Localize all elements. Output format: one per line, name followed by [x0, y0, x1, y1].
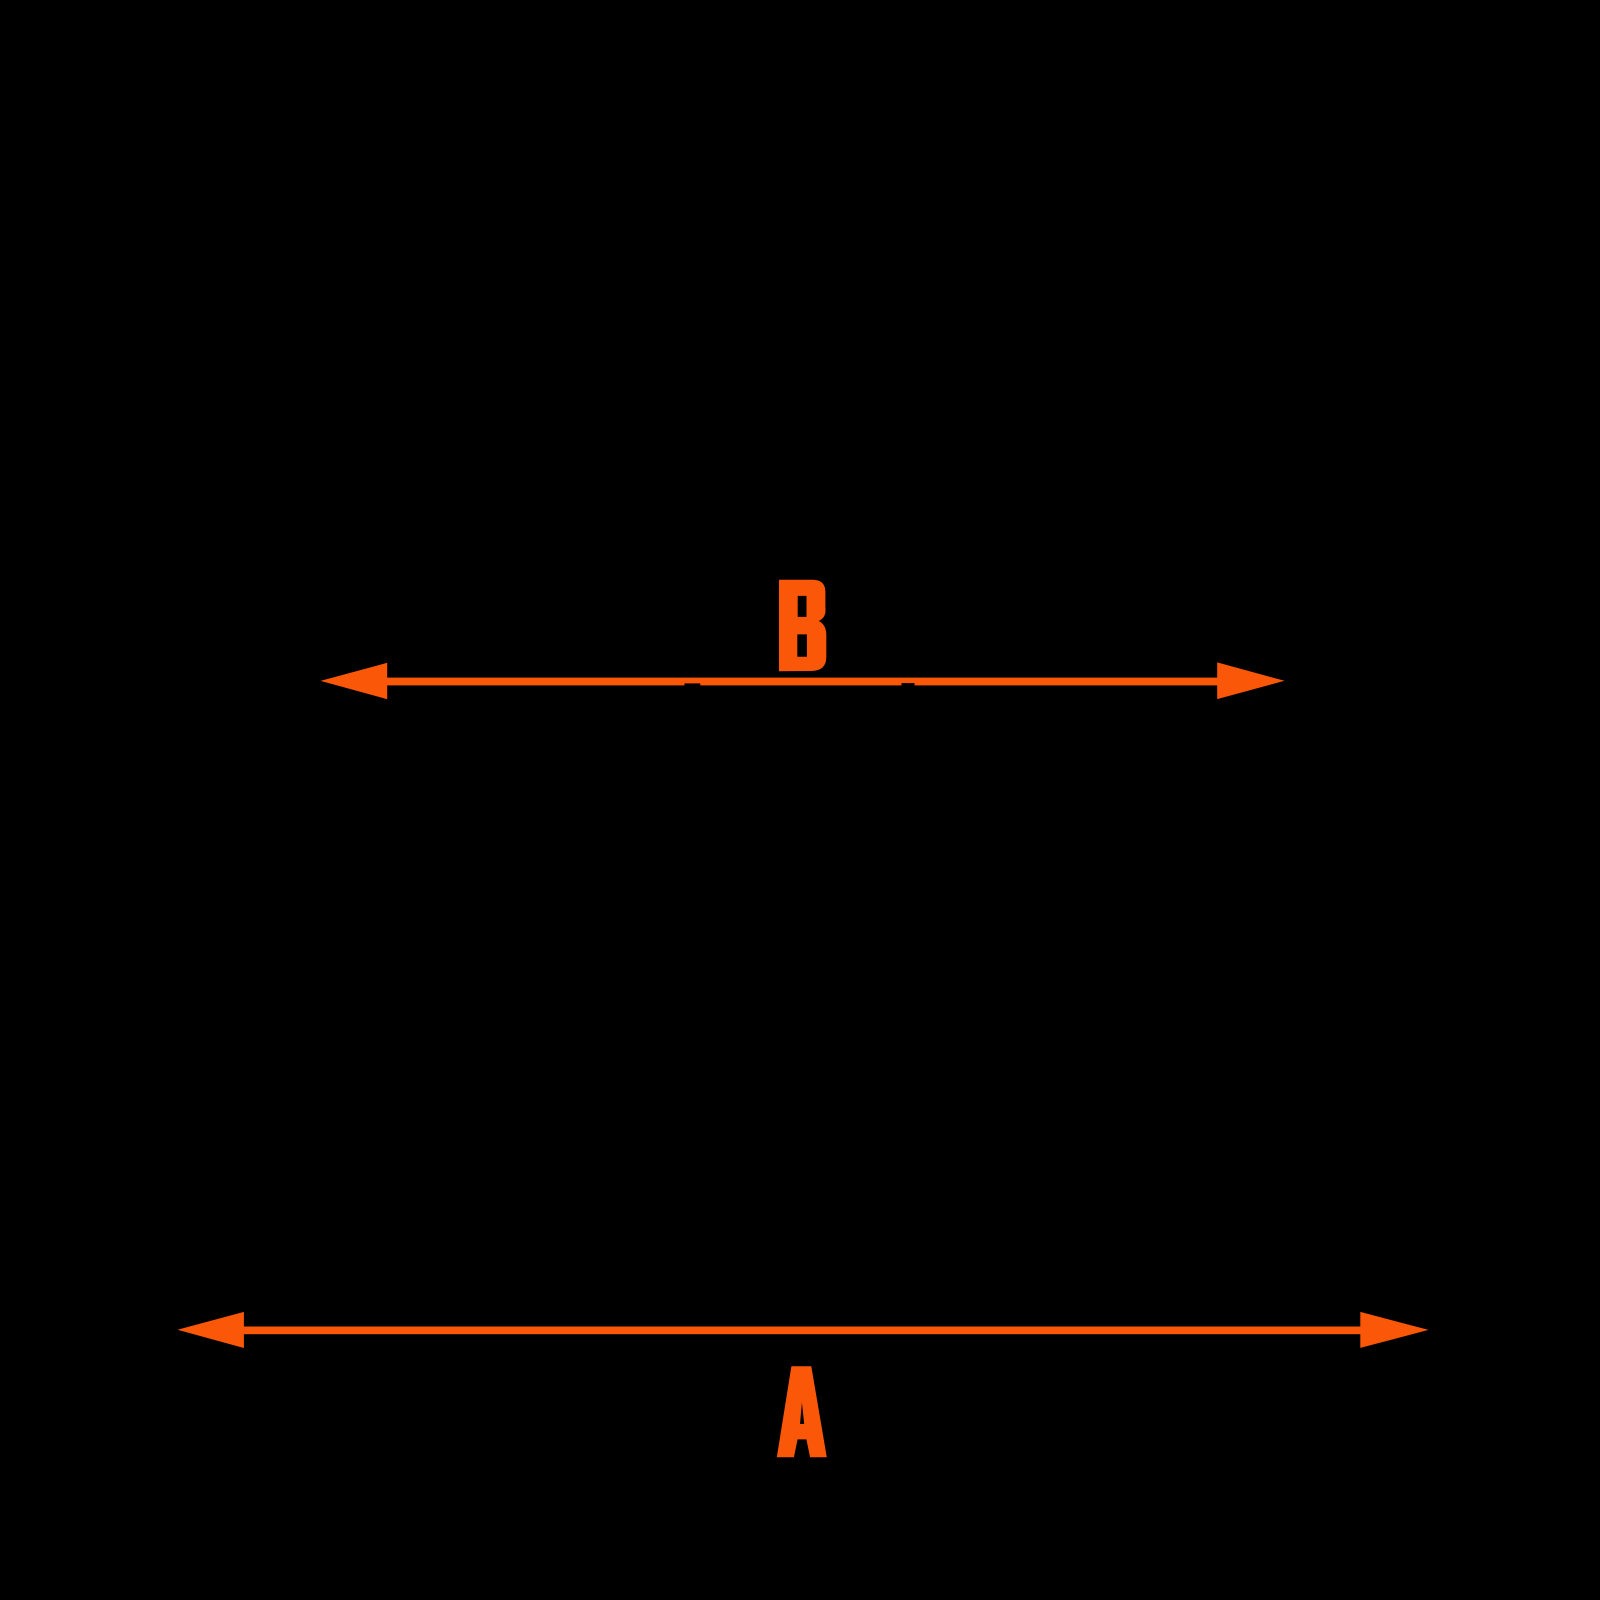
notch overlay 2 (black object clipping B line)	[902, 683, 915, 686]
label A	[777, 1366, 827, 1457]
notch overlay 1 (black object clipping B line)	[685, 683, 701, 685]
dimension arrow B (double-headed horizontal)	[321, 662, 1285, 699]
label B	[779, 580, 826, 672]
dimension arrow A (double-headed horizontal)	[178, 1312, 1429, 1348]
